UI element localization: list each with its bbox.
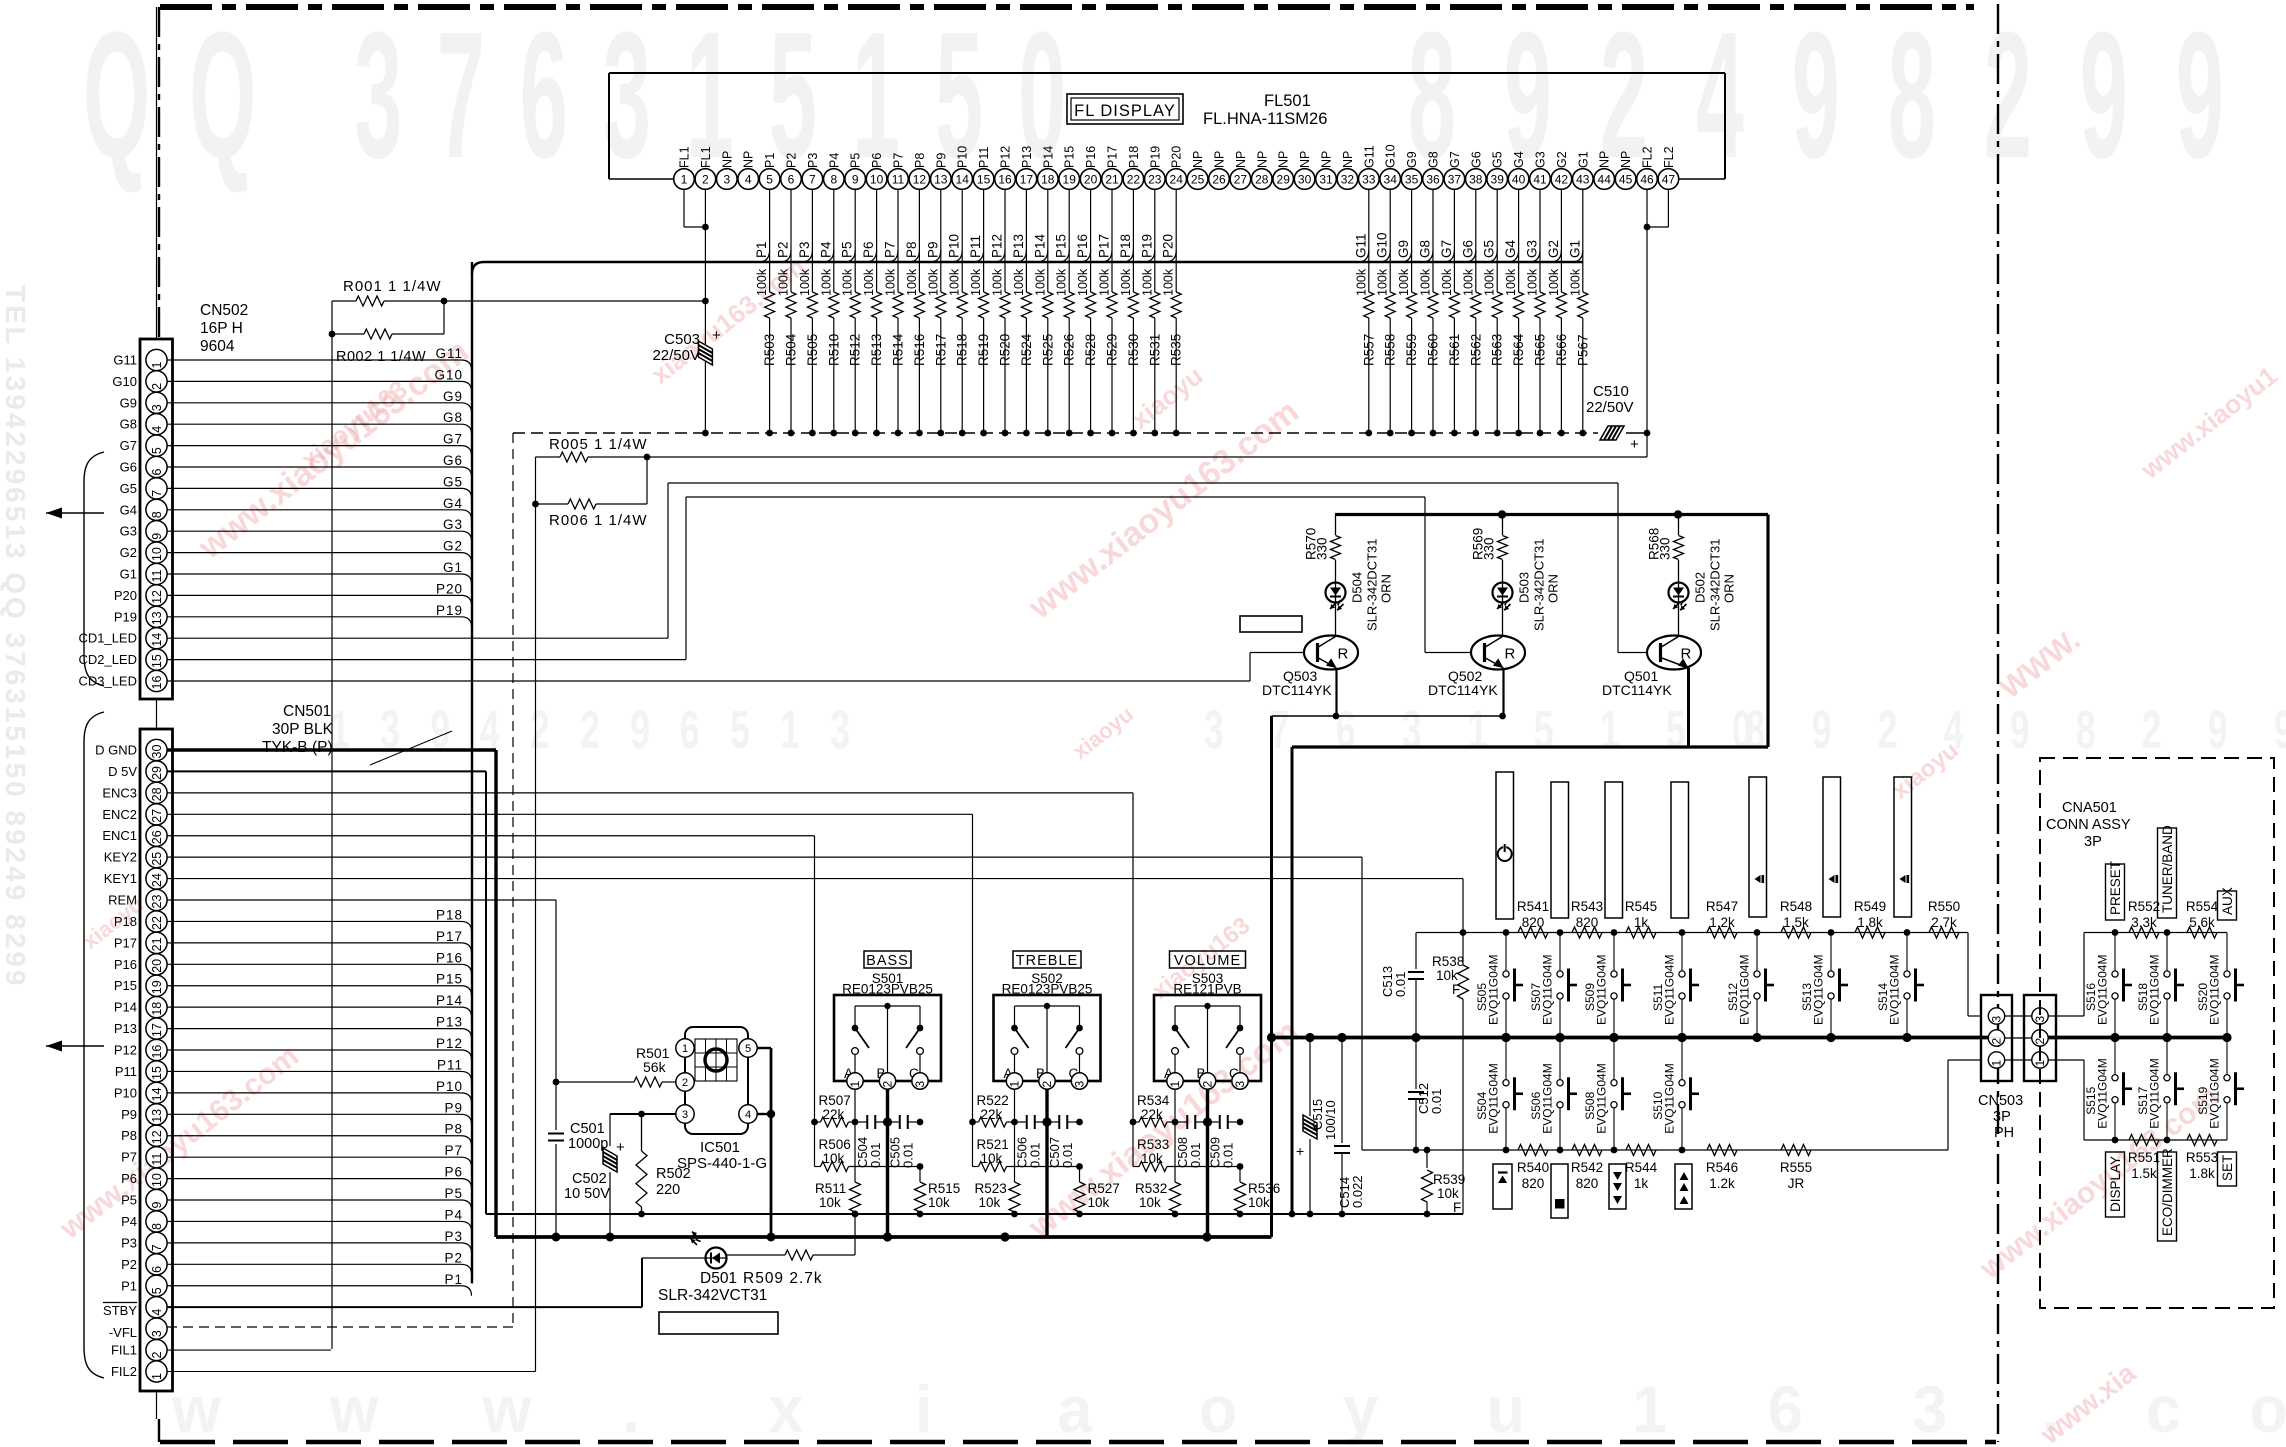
svg-text:R524: R524 (1019, 333, 1034, 366)
svg-text:9: 9 (1812, 700, 1832, 760)
svg-text:0.01: 0.01 (901, 1143, 916, 1168)
svg-text:P7: P7 (444, 1143, 463, 1158)
svg-text:CNA501: CNA501 (2062, 800, 2117, 816)
svg-text:P15: P15 (1063, 146, 1077, 168)
page border bottom (heavy dashed) (160, 1440, 1996, 1445)
svg-text:R522: R522 (977, 1093, 1009, 1108)
svg-text:FL DISPLAY: FL DISPLAY (1074, 102, 1176, 120)
capacitor C514 0.022 (1334, 1033, 1365, 1218)
resistor R554 5.6k (2186, 899, 2219, 938)
svg-text:5: 5 (730, 700, 750, 760)
svg-text:3: 3 (354, 0, 402, 195)
svg-text:F: F (1453, 1200, 1461, 1215)
svg-text:45: 45 (1619, 172, 1633, 186)
transistor Q501 DTC114YK (1602, 636, 1701, 748)
svg-text:R515: R515 (928, 1181, 960, 1196)
wire KEY1 to key row (167, 878, 1463, 880)
connector CN501 30P BLK TYK-B (P) (140, 700, 452, 1420)
svg-text:DISPLAY: DISPLAY (2108, 1156, 2123, 1212)
svg-text:100k: 100k (1526, 268, 1540, 296)
svg-text:R521: R521 (977, 1137, 1009, 1152)
svg-text:EVQ11G04M: EVQ11G04M (2096, 955, 2110, 1025)
svg-text:100k: 100k (1568, 268, 1582, 296)
svg-text:12: 12 (150, 590, 164, 604)
svg-text:5.6k: 5.6k (2189, 915, 2215, 930)
svg-text:BASS: BASS (866, 953, 909, 969)
resistor R541 820 (1517, 899, 1549, 938)
svg-text:330: 330 (1315, 537, 1330, 560)
svg-text:FL2: FL2 (1641, 146, 1655, 168)
svg-text:3: 3 (723, 172, 730, 186)
svg-text:P7: P7 (892, 153, 906, 168)
switch S517 EVQ11G04M (2136, 1038, 2184, 1141)
svg-text:330: 330 (1482, 537, 1497, 560)
capacitor C507 0.01 (1047, 1115, 1083, 1168)
svg-text:R520: R520 (998, 334, 1013, 366)
svg-text:P5: P5 (121, 1193, 137, 1208)
resistor R509 2.7k (727, 1211, 858, 1287)
svg-text:0.01: 0.01 (1221, 1143, 1236, 1168)
arrow CN501 harness (46, 1041, 104, 1052)
svg-text:2: 2 (530, 700, 550, 760)
watermark top digit row (83, 0, 2224, 195)
switch S510 EVQ11G04M (1651, 1038, 1699, 1151)
svg-text:9: 9 (150, 533, 164, 540)
key cap 3 (1605, 782, 1623, 918)
wire common riser to key matrix (1267, 716, 1276, 1237)
svg-text:P15: P15 (436, 972, 463, 987)
key label TUNER/BAND (2158, 825, 2177, 918)
svg-text:30: 30 (1298, 172, 1312, 186)
resistor R506 10k (815, 1122, 924, 1172)
svg-text:G4: G4 (1503, 239, 1518, 258)
resistor R535 100k (P20 column) (1161, 189, 1184, 436)
resistor R529 100k (P17 column) (1097, 189, 1120, 436)
svg-text:25: 25 (1191, 172, 1205, 186)
svg-text:1: 1 (780, 700, 800, 760)
net key common thick (1272, 1036, 1990, 1040)
resistor R565 100k (G3 column) (1525, 189, 1548, 436)
svg-text:SLR-342DCT31: SLR-342DCT31 (1708, 539, 1723, 632)
resistor R561 100k (G7 column) (1439, 189, 1462, 436)
svg-text:x: x (769, 1373, 804, 1447)
svg-text:i: i (915, 1373, 932, 1447)
svg-text:29: 29 (150, 766, 164, 780)
svg-text:P8: P8 (444, 1122, 463, 1137)
svg-text:EVQ11G04M: EVQ11G04M (2148, 955, 2162, 1025)
key cap power (1496, 772, 1514, 919)
svg-text:G10: G10 (112, 374, 137, 389)
svg-text:D503: D503 (1517, 572, 1532, 603)
svg-text:0.01: 0.01 (868, 1143, 883, 1168)
svg-text:P17: P17 (114, 935, 137, 950)
svg-text:FL1: FL1 (699, 146, 713, 168)
svg-text:40: 40 (1512, 172, 1526, 186)
svg-text:R563: R563 (1490, 334, 1505, 366)
wire S502 wiper to common (1045, 1089, 1048, 1237)
S510 common junction (1677, 1033, 1686, 1042)
resistor R559 100k (G9 column) (1396, 189, 1419, 436)
svg-text:27: 27 (150, 809, 164, 823)
key icon stop (1551, 1164, 1568, 1218)
key cap rew/ff 6 (1823, 777, 1841, 917)
resistor R568 330 (1647, 515, 1684, 583)
svg-text:o: o (1199, 1373, 1237, 1447)
svg-text:2: 2 (1040, 1081, 1054, 1088)
svg-text:22: 22 (1127, 172, 1141, 186)
wire ENC3 to R534 node (167, 793, 1133, 1122)
svg-text:R526: R526 (1062, 334, 1077, 366)
svg-text:2: 2 (1201, 1081, 1215, 1088)
svg-text:P16: P16 (436, 950, 463, 965)
svg-text:100/10: 100/10 (1323, 1100, 1338, 1140)
resistor R547 1.2k (1706, 899, 1738, 938)
wire FIL1 riser (331, 301, 333, 1349)
svg-text:G1: G1 (1576, 151, 1590, 168)
svg-text:R551: R551 (2128, 1150, 2160, 1165)
svg-text:100k: 100k (969, 268, 983, 296)
resistor R557 100k (G11 column) (1353, 189, 1376, 436)
svg-text:1: 1 (1632, 1373, 1667, 1447)
svg-text:R513: R513 (869, 334, 884, 366)
svg-text:NP: NP (1341, 151, 1355, 168)
wires CN502 G11-G1,P20,P19 to bus (167, 346, 472, 370)
svg-text:ECO/DIMMER: ECO/DIMMER (2160, 1148, 2175, 1236)
svg-text:6: 6 (150, 1266, 164, 1273)
svg-text:5: 5 (1534, 700, 1554, 760)
svg-text:0.01: 0.01 (1393, 972, 1408, 997)
net D GND thick (167, 750, 1272, 1237)
svg-text:EVQ11G04M: EVQ11G04M (2148, 1058, 2162, 1128)
svg-text:10: 10 (870, 172, 884, 186)
blank label box near Q503 (1240, 616, 1302, 632)
svg-text:G1: G1 (1567, 240, 1582, 258)
svg-text:P4: P4 (121, 1214, 137, 1229)
svg-text:12: 12 (150, 1130, 164, 1144)
svg-text:1: 1 (682, 1043, 688, 1055)
svg-text:R: R (1681, 646, 1692, 663)
svg-text:TYK-B (P): TYK-B (P) (262, 739, 333, 756)
svg-text:G6: G6 (1460, 240, 1475, 258)
svg-text:10k: 10k (928, 1195, 950, 1210)
svg-text:DTC114YK: DTC114YK (1262, 682, 1332, 698)
switch S515 EVQ11G04M (2084, 1038, 2132, 1141)
svg-text:17: 17 (1020, 172, 1034, 186)
svg-text:10k: 10k (1248, 1195, 1270, 1210)
svg-text:22/50V: 22/50V (1586, 399, 1634, 416)
svg-text:10k: 10k (1139, 1195, 1161, 1210)
svg-text:R554: R554 (2186, 899, 2219, 914)
svg-text:R511: R511 (815, 1181, 846, 1196)
svg-text:R555: R555 (1780, 1160, 1812, 1175)
resistor R514 100k (P7 column) (883, 189, 906, 436)
resistor R549 1.8k (1854, 899, 1886, 938)
key icon up (1675, 1164, 1692, 1209)
svg-text:NP: NP (1320, 151, 1334, 168)
svg-text:2: 2 (881, 1081, 895, 1088)
svg-text:P10: P10 (956, 146, 970, 168)
svg-text:9: 9 (2208, 700, 2228, 760)
net KEY1 row (1416, 933, 1981, 1017)
svg-text:CN503: CN503 (1978, 1093, 2023, 1109)
svg-text:1.8k: 1.8k (1857, 915, 1883, 930)
resistor R525 100k (P14 column) (1032, 189, 1055, 436)
svg-text:G3: G3 (120, 524, 137, 539)
junction dots on wiper bus (883, 1232, 1212, 1241)
resistor R512 100k (P5 column) (840, 189, 863, 436)
svg-text:6: 6 (680, 700, 700, 760)
capacitor C503 22/50V (652, 327, 721, 365)
switch S501 RE0123PVB25 (BASS) (834, 951, 941, 1089)
svg-text:2.7k: 2.7k (1931, 915, 1957, 930)
svg-text:G8: G8 (1427, 151, 1441, 168)
svg-text:SLR-342VCT31: SLR-342VCT31 (658, 1287, 767, 1304)
resistor R001 1 1/4W (332, 278, 705, 306)
svg-text:100k: 100k (926, 268, 940, 296)
resistor R534 22k (1130, 1093, 1179, 1127)
svg-text:NP: NP (1277, 151, 1291, 168)
svg-text:R: R (1505, 646, 1516, 663)
svg-text:EVQ11G04M: EVQ11G04M (1888, 955, 1902, 1025)
svg-text:w: w (329, 1373, 380, 1447)
svg-text:P11: P11 (968, 235, 983, 258)
svg-text:G6: G6 (443, 453, 463, 468)
svg-text:4: 4 (1696, 0, 1744, 195)
key cap rew/ff 5 (1749, 777, 1767, 917)
resistor R520 100k (P12 column) (990, 189, 1013, 436)
svg-text:P18: P18 (114, 914, 137, 929)
svg-text:PRESET: PRESET (2108, 861, 2123, 915)
svg-text:P19: P19 (1148, 146, 1162, 168)
svg-text:P7: P7 (883, 241, 898, 258)
svg-text:R561: R561 (1447, 334, 1462, 366)
svg-text:5: 5 (1666, 700, 1686, 760)
resistor R504 100k (P2 column) (776, 189, 799, 436)
svg-text:G5: G5 (120, 481, 137, 496)
svg-text:10k: 10k (1437, 1186, 1459, 1201)
svg-text:R517: R517 (933, 334, 948, 366)
svg-text:10 50V: 10 50V (564, 1186, 610, 1202)
svg-text:FIL2: FIL2 (111, 1364, 137, 1379)
svg-text:R002 1 1/4W: R002 1 1/4W (336, 349, 426, 365)
svg-text:CN502: CN502 (200, 302, 248, 319)
svg-text:AUX: AUX (2220, 887, 2235, 915)
CN503 pin2 common stub (1989, 1037, 2031, 1039)
cable bracket CN501 (84, 712, 104, 1378)
resistor R524 100k (P13 column) (1011, 189, 1034, 436)
svg-text:FIL1: FIL1 (111, 1343, 137, 1358)
resistor R532 10k (1135, 1089, 1181, 1217)
svg-text:RE121PVB: RE121PVB (1173, 982, 1241, 997)
resistor R005 1 1/4W (536, 436, 651, 1372)
svg-text:R507: R507 (819, 1093, 851, 1108)
svg-text:R509 2.7k: R509 2.7k (743, 1270, 823, 1287)
svg-text:P18: P18 (1127, 146, 1141, 168)
resistor R517 100k (P9 column) (925, 189, 948, 436)
svg-text:R538: R538 (1432, 954, 1464, 969)
FL501 designator label (1203, 92, 1327, 128)
svg-text:100k: 100k (905, 268, 919, 296)
svg-text:100k: 100k (948, 268, 962, 296)
CNA501 title (2046, 800, 2131, 850)
svg-text:EVQ11G04M: EVQ11G04M (1812, 955, 1826, 1025)
resistor R540 820 (1517, 1145, 1549, 1192)
svg-text:P11: P11 (977, 147, 991, 168)
svg-text:R514: R514 (891, 333, 906, 366)
svg-text:1: 1 (1468, 700, 1488, 760)
resistor R544 1k (1625, 1145, 1658, 1192)
resistor R521 10k (973, 1122, 1083, 1172)
svg-text:28: 28 (150, 787, 164, 801)
resistor R002 1 1/4W (329, 301, 444, 365)
svg-text:P3: P3 (121, 1235, 137, 1250)
arrow CN502 harness (46, 508, 104, 519)
svg-text:25: 25 (150, 852, 164, 866)
svg-text:.: . (622, 1373, 639, 1447)
wire ENC1 to R507 node (167, 836, 815, 1122)
svg-text:10: 10 (150, 1173, 164, 1187)
svg-text:2: 2 (682, 1077, 688, 1089)
IC501 SPS-440-1-G (676, 1027, 767, 1172)
svg-text:39: 39 (1491, 172, 1505, 186)
svg-text:100k: 100k (1162, 268, 1176, 296)
svg-text:100k: 100k (798, 268, 812, 296)
svg-text:7: 7 (150, 1244, 164, 1251)
svg-text:G9: G9 (1405, 151, 1419, 168)
wire FL2 net down to filament resistors (647, 189, 1650, 457)
resistor R510 100k (P4 column) (818, 189, 841, 436)
page border right (dash-dot) (1997, 4, 1999, 1442)
svg-text:P12: P12 (436, 1036, 463, 1051)
svg-text:R544: R544 (1625, 1160, 1658, 1175)
svg-text:R504: R504 (784, 333, 799, 366)
svg-text:100k: 100k (1098, 268, 1112, 296)
svg-text:FL.HNA-11SM26: FL.HNA-11SM26 (1203, 110, 1327, 128)
svg-text:3: 3 (1073, 1081, 1087, 1088)
svg-text:CN501: CN501 (283, 703, 331, 720)
svg-text:56k: 56k (643, 1059, 667, 1075)
svg-text:100k: 100k (1119, 268, 1133, 296)
svg-text:D504: D504 (1350, 572, 1365, 603)
svg-text:1.5k: 1.5k (2131, 1166, 2157, 1181)
svg-text:G2: G2 (1546, 240, 1561, 258)
KEY2 row junction dots (1503, 1147, 1686, 1154)
svg-text:P4: P4 (818, 241, 833, 258)
svg-text:P9: P9 (444, 1100, 463, 1115)
switch S514 EVQ11G04M (1876, 933, 1924, 1038)
svg-text:2: 2 (150, 383, 164, 390)
svg-text:G3: G3 (443, 517, 463, 532)
svg-text:P1: P1 (121, 1278, 137, 1293)
svg-text:R503: R503 (762, 334, 777, 366)
svg-text:P13: P13 (436, 1015, 463, 1030)
svg-text:P1: P1 (444, 1272, 463, 1287)
LED D502 SLR-342DCT31 ORN (1669, 539, 1737, 637)
svg-text:SLR-342DCT31: SLR-342DCT31 (1365, 539, 1380, 632)
svg-text:G8: G8 (1418, 240, 1433, 258)
svg-text:P2: P2 (785, 153, 799, 168)
resistor R502 220 (636, 1114, 691, 1217)
svg-text:P10: P10 (114, 1085, 137, 1100)
svg-text:100k: 100k (884, 268, 898, 296)
svg-text:P20: P20 (114, 588, 137, 603)
svg-text:37: 37 (1448, 172, 1462, 186)
resistor P567 100k (G1 column) (1567, 189, 1590, 436)
svg-text:5: 5 (745, 1043, 751, 1055)
svg-text:P14: P14 (1041, 146, 1055, 168)
svg-text:7: 7 (150, 490, 164, 497)
svg-text:R005 1 1/4W: R005 1 1/4W (549, 436, 648, 453)
svg-text:TEL 13942296513 QQ 376315150: TEL 13942296513 QQ 376315150 89249 8299 (0, 285, 31, 988)
svg-text:100k: 100k (1033, 268, 1047, 296)
svg-text:47: 47 (1662, 172, 1676, 186)
svg-text:RE0123PVB25: RE0123PVB25 (1002, 982, 1093, 997)
svg-text:20: 20 (150, 959, 164, 973)
svg-text:6: 6 (1336, 700, 1356, 760)
net KEY2 row (1362, 1060, 1981, 1150)
svg-text:c: c (2146, 1373, 2181, 1447)
svg-text:9: 9 (852, 172, 859, 186)
svg-text:1.5k: 1.5k (1783, 915, 1809, 930)
svg-text:1: 1 (681, 172, 688, 186)
svg-text:1.2k: 1.2k (1709, 1176, 1735, 1191)
svg-text:100k: 100k (1419, 268, 1433, 296)
svg-text:26: 26 (150, 830, 164, 844)
net D 5V (167, 771, 1463, 1214)
svg-text:0.022: 0.022 (1350, 1175, 1365, 1208)
key cap rew/ff 7 (1894, 777, 1912, 917)
S504 common junction (1501, 1033, 1510, 1042)
svg-text:REM: REM (108, 893, 137, 908)
wire STBY to D501 (167, 1258, 642, 1307)
svg-text:2: 2 (1990, 1038, 2004, 1045)
svg-text:15: 15 (977, 172, 991, 186)
svg-text:P7: P7 (121, 1150, 137, 1165)
svg-text:ORN: ORN (1546, 574, 1561, 603)
svg-text:8: 8 (150, 511, 164, 518)
svg-text:30P BLK: 30P BLK (272, 721, 334, 738)
svg-text:P6: P6 (444, 1165, 463, 1180)
svg-text:4: 4 (150, 426, 164, 433)
svg-text:2: 2 (1878, 700, 1898, 760)
capacitor C504 0.01 (855, 1115, 892, 1168)
wire ENC2 to R522 node (167, 814, 973, 1122)
svg-text:31: 31 (1319, 172, 1333, 186)
svg-text:PH: PH (1994, 1125, 2014, 1141)
resistor R515 10k (915, 1167, 961, 1218)
wire S501 wiper to common (886, 1089, 889, 1237)
resistor R522 22k (969, 1093, 1018, 1127)
wire FL1 pins 1-2 join (684, 189, 709, 230)
svg-text:R528: R528 (1083, 334, 1098, 366)
svg-text:19: 19 (1063, 172, 1077, 186)
resistor R560 100k (G8 column) (1418, 189, 1441, 436)
wire S503 wiper to common (1206, 1089, 1209, 1237)
svg-text:NP: NP (1255, 151, 1269, 168)
switch S518 EVQ11G04M (2136, 933, 2184, 1038)
svg-text:100k: 100k (991, 268, 1005, 296)
svg-text:22k: 22k (1141, 1107, 1163, 1122)
wires CN501 P18-P1 to bus (167, 1272, 472, 1296)
resistor R570 330 (1304, 515, 1341, 583)
svg-text:1: 1 (1600, 700, 1620, 760)
svg-text:1: 1 (150, 362, 164, 369)
svg-text:Q: Q (83, 0, 150, 195)
svg-text:820: 820 (1522, 915, 1545, 930)
svg-text:1: 1 (1008, 1081, 1022, 1088)
svg-text:4: 4 (745, 172, 752, 186)
svg-text:R523: R523 (975, 1181, 1007, 1196)
